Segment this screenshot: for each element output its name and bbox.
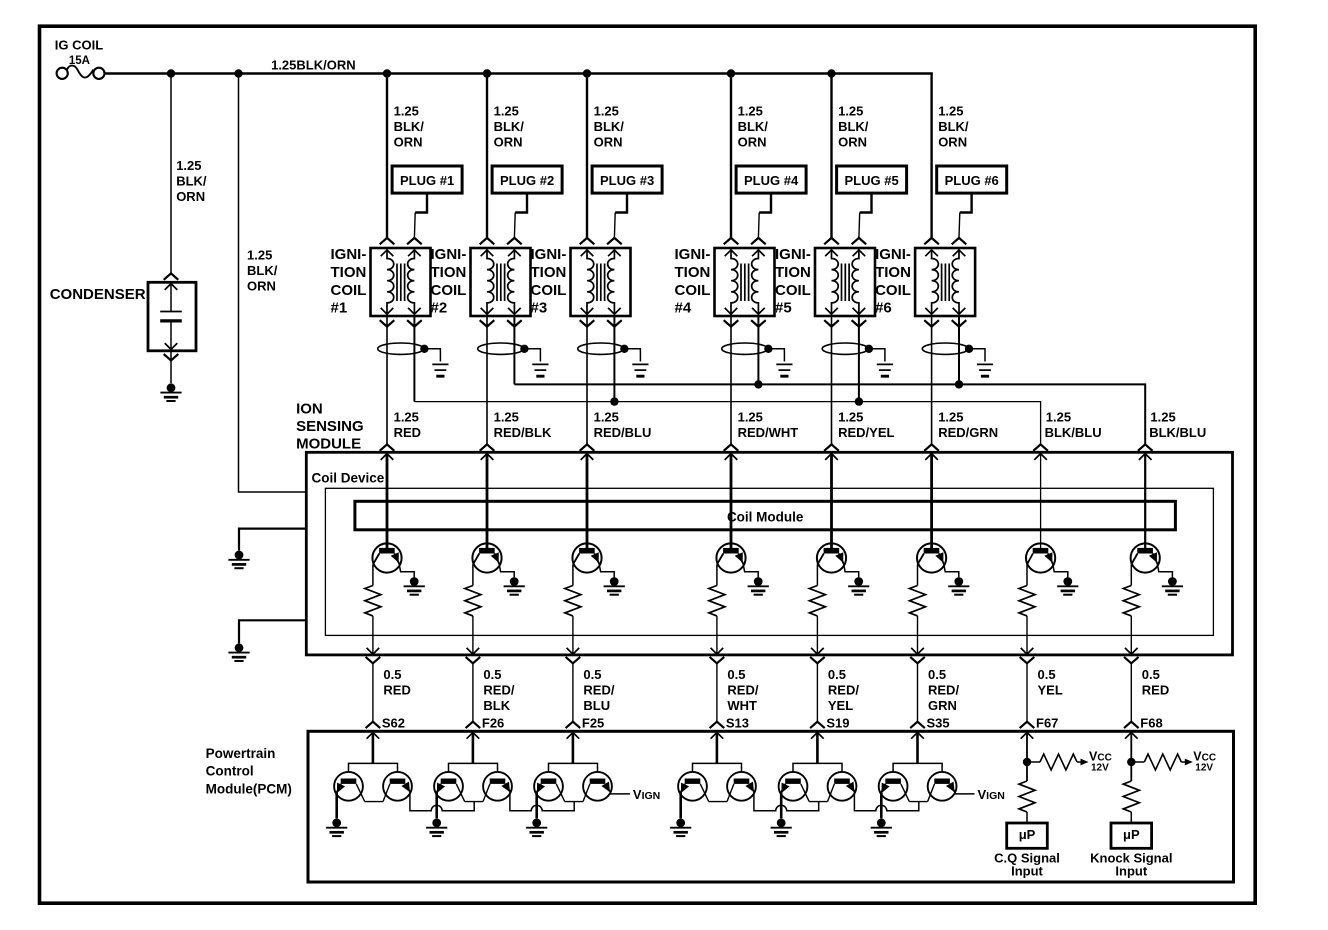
wire coil device ground stub 1: [239, 529, 306, 551]
svg-text:0.5: 0.5: [828, 667, 846, 682]
shield ring coil 6: [922, 343, 968, 354]
wire shield 2 to ground: [524, 349, 540, 362]
wire 1.25 BLK/ORN to coil device: [239, 74, 307, 493]
label 1.25 RED/YEL: [838, 409, 894, 440]
junction dot bus A coil6: [955, 380, 963, 388]
connector pin coil 5 primary bottom: [825, 308, 838, 314]
wire ion column 5: [830, 454, 833, 549]
connector pin coil 2 primary top: [481, 250, 494, 256]
connector pin pcm in 7: [1021, 732, 1034, 738]
wire coil 3 primary feed: [586, 74, 588, 238]
spark plug box PLUG #2: [492, 166, 562, 193]
svg-text:12V: 12V: [1091, 762, 1109, 773]
ignition coil T5 box: [815, 248, 875, 316]
svg-text:1.25: 1.25: [738, 103, 763, 118]
connector pin ion in 3: [581, 454, 594, 460]
wire bus coils 1/3/5 to BLK/BLU: [414, 402, 1040, 445]
connector pin ion in 2: [481, 454, 494, 460]
connector chevron coil 4 secondary top: [751, 238, 766, 244]
svg-text:BLK/BLU: BLK/BLU: [1149, 425, 1206, 440]
connector pin condenser top: [165, 284, 178, 290]
svg-text:VIGN: VIGN: [978, 787, 1005, 802]
ground ion Q3: [604, 577, 625, 595]
wire harness 6: [917, 663, 919, 721]
svg-text:12V: 12V: [1195, 762, 1213, 773]
svg-text:RED: RED: [394, 425, 421, 440]
microprocessor box uP 2: [1111, 823, 1152, 848]
resistor ion R5: [809, 586, 825, 616]
connector chevron coil 2 secondary top: [507, 238, 522, 244]
label Coil Device: [312, 471, 385, 486]
connector pin ion out 3: [567, 648, 580, 654]
transistor pcm Q7: [678, 772, 707, 801]
wire ion Q1 collector: [372, 565, 374, 586]
wire ion Q5 emitter: [844, 564, 859, 578]
label ION SENSING MODULE: [296, 400, 364, 452]
svg-text:BLK/: BLK/: [494, 119, 525, 134]
connector chevron pcm in 7: [1020, 722, 1035, 728]
wire pcm input 5: [816, 732, 819, 763]
svg-text:BLK/: BLK/: [738, 119, 769, 134]
wire coil 4 sense line: [730, 316, 732, 444]
svg-text:TION: TION: [531, 264, 567, 281]
ignition coil T1 box: [371, 248, 431, 316]
label PLUG #1: [400, 173, 454, 188]
label 1.25 BLK/ORN coil 5: [838, 103, 869, 149]
connector chevron ion out 7: [1020, 657, 1035, 663]
label Coil Module: [727, 509, 804, 524]
svg-text:ORN: ORN: [594, 134, 623, 149]
svg-text:1.25: 1.25: [594, 409, 619, 424]
svg-text:BLK/: BLK/: [247, 263, 278, 278]
resistor ion R1: [365, 586, 381, 616]
svg-text:S19: S19: [826, 715, 849, 730]
wire ion Q3 emitter: [599, 564, 614, 578]
connector chevron coil 1 primary top: [380, 238, 395, 244]
svg-text:PLUG #4: PLUG #4: [744, 173, 799, 188]
connector chevron coil 6 primary top: [924, 238, 939, 244]
ignition coil T6 box: [915, 248, 975, 316]
wire pcm Q9 collector: [801, 784, 809, 802]
wire plug 3 to coil: [614, 193, 627, 238]
wire pcm input 4: [716, 732, 719, 763]
connector chevron coil 6 secondary bottom: [952, 320, 967, 326]
wire plug 1 to coil: [414, 193, 427, 238]
label 1.25 BLK/ORN riser: [247, 248, 278, 294]
ground condenser: [160, 383, 181, 401]
transistor ion Q6: [917, 543, 946, 572]
connector pin ion out 8: [1125, 648, 1138, 654]
connector chevron ion out 2: [466, 657, 481, 663]
label 1.25 BLK/ORN coil 1: [394, 103, 425, 149]
svg-text:#1: #1: [331, 300, 348, 317]
svg-text:1.25: 1.25: [1150, 409, 1175, 424]
svg-text:#4: #4: [675, 300, 692, 317]
svg-text:0.5: 0.5: [1038, 667, 1056, 682]
wire shield 4 to ground: [768, 349, 784, 362]
wire ion Q6 emitter: [944, 564, 959, 578]
wire pcm Q5 collector: [556, 784, 564, 802]
junction dot bus B coil3: [610, 397, 618, 405]
svg-text:VCC: VCC: [1089, 749, 1112, 763]
svg-text:0.5: 0.5: [583, 667, 601, 682]
junction dot vcc 1: [1023, 758, 1031, 766]
label 1.25 BLK/BLU left: [1045, 409, 1102, 440]
svg-text:Powertrain: Powertrain: [206, 746, 276, 761]
wire shield 6 to ground: [969, 349, 985, 362]
label Powertrain Control Module(PCM): [206, 746, 292, 797]
svg-text:IGNI-: IGNI-: [675, 246, 711, 263]
svg-text:S62: S62: [382, 715, 405, 730]
pin label S13: [726, 715, 749, 730]
svg-text:1.25: 1.25: [176, 158, 201, 173]
connector chevron ion out 6: [910, 657, 925, 663]
svg-text:15A: 15A: [69, 55, 90, 67]
connector chevron coil 5 primary bottom: [824, 320, 839, 326]
spark plug box PLUG #3: [592, 166, 662, 193]
wire pcm pair 5 base bar: [793, 763, 842, 772]
wire coil 5 primary feed: [830, 74, 832, 238]
connector pin ion out 1: [367, 648, 380, 654]
resistor ion R3: [565, 586, 581, 616]
svg-text:μP: μP: [1019, 827, 1036, 842]
connector pin pcm in 1: [367, 732, 380, 738]
wire pcm input 2: [472, 732, 475, 763]
connector chevron ion in 5: [824, 444, 839, 450]
wire plug 5 to coil: [859, 193, 872, 238]
junction dot feed 6: [727, 69, 735, 77]
label 15A: [69, 55, 90, 67]
wire pcm pair 2 mid: [465, 801, 483, 803]
label IGNITION COIL #5: [775, 246, 811, 316]
svg-text:BLU: BLU: [583, 698, 610, 713]
connector chevron coil 3 primary bottom: [580, 320, 595, 326]
transistor ion Q4: [716, 543, 745, 572]
wire ion Q1 emitter: [399, 564, 414, 578]
connector pin coil 3 primary top: [581, 250, 594, 256]
svg-text:ORN: ORN: [938, 134, 967, 149]
wire pcm input 1: [372, 732, 375, 763]
svg-text:1.25: 1.25: [838, 409, 863, 424]
label C.Q Signal Input: [994, 850, 1060, 878]
ground ion Q7: [1057, 577, 1078, 595]
coil 3 primary winding: [587, 250, 594, 314]
svg-text:SENSING: SENSING: [296, 418, 364, 435]
transistor ion Q5: [817, 543, 846, 572]
connector chevron ion in 1: [380, 444, 395, 450]
junction dot feed 4: [483, 69, 491, 77]
svg-text:F26: F26: [482, 715, 504, 730]
wire coil 6 sense line: [931, 316, 933, 444]
connector pin coil 4 primary bottom: [725, 308, 738, 314]
svg-text:1.25: 1.25: [247, 248, 272, 263]
connector pin pcm in 4: [711, 732, 724, 738]
svg-text:PLUG #6: PLUG #6: [945, 173, 999, 188]
wire coil 2 secondary return: [513, 316, 515, 384]
svg-text:0.5: 0.5: [727, 667, 745, 682]
connector chevron coil 6 primary bottom: [924, 320, 939, 326]
svg-text:ION: ION: [296, 400, 323, 417]
svg-text:S13: S13: [726, 715, 749, 730]
svg-text:CONDENSER: CONDENSER: [50, 286, 146, 303]
svg-text:ORN: ORN: [494, 134, 523, 149]
spark plug box PLUG #4: [736, 166, 806, 193]
svg-text:IGNI-: IGNI-: [875, 246, 911, 263]
svg-text:#5: #5: [775, 300, 792, 317]
junction dot bus A coil4: [754, 380, 762, 388]
svg-text:μP: μP: [1123, 827, 1140, 842]
resistor vcc R1: [1040, 754, 1077, 770]
wire pcm pair 2 link: [510, 792, 574, 811]
svg-text:1.25: 1.25: [394, 103, 419, 118]
svg-text:IGNI-: IGNI-: [331, 246, 367, 263]
svg-text:ORN: ORN: [394, 134, 423, 149]
wire ion column 8: [1144, 454, 1146, 549]
ground pcm pair 3: [526, 819, 547, 837]
ground pcm pair 5: [771, 819, 792, 837]
shield ring coil 3: [578, 343, 624, 354]
svg-text:0.5: 0.5: [483, 667, 501, 682]
ground shield 6: [977, 364, 993, 376]
connector pin coil 2 primary bottom: [481, 308, 494, 314]
wire coil 6 secondary return: [958, 316, 960, 384]
connector pin coil 4 primary top: [725, 250, 738, 256]
connector pin coil 4 secondary top: [752, 250, 765, 256]
wire to vcc resistor 2: [1131, 761, 1144, 763]
label 1.25 BLK/ORN coil 4: [738, 103, 769, 149]
transistor ion Q2: [472, 543, 501, 572]
label IGNITION COIL #4: [675, 246, 711, 316]
resistor ion R4: [709, 586, 725, 616]
svg-text:ORN: ORN: [176, 189, 205, 204]
svg-text:ORN: ORN: [738, 134, 767, 149]
capacitor plates: [160, 312, 182, 321]
wire resistor to uP 1: [1026, 812, 1028, 823]
label 1.25 RED: [394, 409, 421, 440]
connector pin ion out 6: [911, 648, 924, 654]
connector chevron coil 1 secondary top: [407, 238, 422, 244]
wire shield 3 to ground: [624, 349, 640, 362]
connector chevron coil 5 secondary bottom: [852, 320, 867, 326]
wire condenser internal top: [170, 284, 172, 312]
connector chevron ion out 4: [710, 657, 725, 663]
svg-text:YEL: YEL: [828, 698, 853, 713]
wire coil 4 secondary return: [757, 316, 759, 384]
wire pcm pair 6 mid: [909, 801, 927, 803]
transistor pcm Q4: [483, 772, 512, 802]
connector pin coil 2 secondary top: [508, 250, 521, 256]
coil 5 primary winding: [832, 250, 839, 314]
wire ion Q2 collector: [472, 565, 474, 586]
junction dot feed 1: [167, 69, 175, 77]
wire ion Q8 collector: [1130, 565, 1132, 586]
wire pcm pair 4 link: [754, 792, 819, 811]
connector pin coil 6 primary top: [925, 250, 938, 256]
svg-text:YEL: YEL: [1038, 682, 1063, 697]
wire pcm pair 4 mid: [709, 801, 727, 803]
svg-text:RED/WHT: RED/WHT: [738, 425, 799, 440]
label CONDENSER: [50, 286, 146, 303]
resistor vcc R2: [1144, 754, 1181, 770]
svg-text:TION: TION: [875, 264, 911, 281]
connector pin coil 3 primary bottom: [581, 308, 594, 314]
wire pcm Q3 emitter to ground: [435, 792, 438, 818]
svg-text:Coil Module: Coil Module: [727, 509, 804, 524]
connector pin coil 1 secondary bottom: [408, 308, 421, 314]
label VIGN: [978, 787, 1005, 802]
wire ion column 7: [1040, 454, 1042, 549]
label IGNITION COIL #1: [331, 246, 367, 316]
wire ion Q3 collector: [572, 565, 574, 586]
label 0.5 RED/BLU: [583, 667, 614, 713]
label 0.5 RED/BLK: [483, 667, 514, 713]
label PLUG #6: [945, 173, 999, 188]
svg-text:1.25: 1.25: [938, 409, 963, 424]
shield ring coil 5: [822, 343, 868, 354]
label IG COIL: [55, 37, 103, 52]
wire pcm pair 1 mid: [365, 801, 383, 803]
wire harness 2: [472, 663, 474, 721]
ground ion Q1: [404, 577, 425, 595]
wire ion out 7: [1026, 616, 1028, 654]
svg-text:Input: Input: [1011, 863, 1043, 878]
wire ion Q4 collector: [716, 565, 718, 586]
pin label F68: [1140, 715, 1162, 730]
svg-text:IG COIL: IG COIL: [55, 37, 103, 52]
svg-text:COIL: COIL: [331, 282, 367, 299]
ground shield 4: [776, 364, 792, 376]
wire ion out 6: [917, 616, 919, 654]
svg-text:#3: #3: [531, 300, 548, 317]
svg-text:TION: TION: [431, 264, 467, 281]
wire coil 5 sense line: [831, 316, 833, 444]
ground coil device 2: [228, 643, 249, 661]
ground ion Q4: [748, 577, 769, 595]
svg-text:S35: S35: [927, 715, 950, 730]
pin label F26: [482, 715, 504, 730]
connector pin pcm in 3: [567, 732, 580, 738]
wire shield 5 to ground: [869, 349, 885, 362]
pin label S35: [927, 715, 950, 730]
label PLUG #5: [845, 173, 899, 188]
connector chevron pcm in 6: [910, 722, 925, 728]
resistor ion R2: [465, 586, 481, 616]
wire condenser branch: [170, 74, 172, 274]
transistor pcm Q3: [434, 772, 463, 801]
shield ring coil 2: [478, 343, 524, 354]
connector chevron ion in 4: [724, 444, 739, 450]
ignition coil T3 box: [571, 248, 631, 316]
pin label F67: [1036, 715, 1058, 730]
ignition coil T2 box: [471, 248, 531, 316]
ground shield 5: [877, 364, 893, 376]
transistor pcm Q10: [828, 772, 857, 802]
wire ion column 3: [586, 454, 589, 549]
ground shield 2: [532, 364, 548, 376]
connector chevron ion in 8: [1138, 444, 1153, 450]
wire pcm pair 6 base bar: [893, 763, 942, 772]
ground pcm pair 1: [326, 819, 347, 837]
junction dot shield 6: [965, 345, 973, 353]
wire coil 6 primary feed: [930, 74, 932, 238]
svg-text:1.25BLK/ORN: 1.25BLK/ORN: [271, 58, 356, 73]
wire pcm pair 2 base bar: [449, 763, 498, 772]
wire plug 4 to coil: [758, 193, 771, 238]
wire pcm Q7 collector: [700, 784, 708, 802]
connector chevron pcm in 5: [810, 722, 825, 728]
pin label S62: [382, 715, 405, 730]
transistor pcm Q6: [583, 772, 612, 802]
wire coil 4 primary feed: [730, 74, 732, 238]
svg-text:ORN: ORN: [838, 134, 867, 149]
svg-text:PLUG #3: PLUG #3: [600, 173, 654, 188]
wire 1.25BLK/ORN main feed: [105, 72, 933, 75]
junction dot shield 1: [420, 345, 428, 353]
wire ion Q8 emitter: [1157, 564, 1172, 578]
connector chevron ion out 5: [810, 657, 825, 663]
junction dot shield 3: [620, 345, 628, 353]
transistor ion Q1: [372, 543, 401, 572]
connector pin coil 4 secondary bottom: [752, 308, 765, 314]
svg-text:MODULE: MODULE: [296, 435, 361, 452]
svg-text:BLK/: BLK/: [838, 119, 869, 134]
label uP 2: [1123, 827, 1140, 842]
wire pcm input 3: [572, 732, 575, 763]
wire to vcc resistor 1: [1027, 761, 1040, 763]
svg-text:WHT: WHT: [727, 698, 757, 713]
wire pcm input 6: [916, 732, 919, 763]
connector pin coil 2 secondary bottom: [508, 308, 521, 314]
junction dot vcc 2: [1127, 758, 1135, 766]
coil device box: [306, 452, 1232, 655]
svg-text:0.5: 0.5: [928, 667, 946, 682]
label IGNITION COIL #6: [875, 246, 911, 316]
coil 5 core: [842, 264, 850, 302]
connector chevron condenser top: [164, 273, 179, 279]
wire coil 5 secondary return: [858, 316, 860, 402]
connector chevron coil 4 secondary bottom: [751, 320, 766, 326]
label 1.25 BLK/ORN condenser: [176, 158, 207, 204]
inner module outline: [325, 488, 1213, 635]
connector pin pcm in 6: [911, 732, 924, 738]
svg-text:F68: F68: [1140, 715, 1162, 730]
wire ion out 4: [716, 616, 718, 654]
svg-text:RED/: RED/: [583, 682, 614, 697]
wire pcm Q11 collector: [901, 784, 909, 802]
microprocessor box uP 1: [1007, 823, 1048, 848]
ground coil device 1: [228, 551, 249, 569]
resistor ion R8: [1123, 586, 1139, 616]
svg-text:IGNI-: IGNI-: [531, 246, 567, 263]
shield ring coil 1: [378, 343, 424, 354]
svg-text:COIL: COIL: [531, 282, 567, 299]
connector pin coil 3 secondary top: [608, 250, 621, 256]
shield ring coil 4: [722, 343, 768, 354]
svg-text:RED/BLU: RED/BLU: [594, 425, 652, 440]
junction dot shield 2: [520, 345, 528, 353]
junction dot feed 7: [827, 69, 835, 77]
wire plug 2 to coil: [514, 193, 527, 238]
wire ion out 2: [472, 616, 474, 654]
coil 3 secondary winding: [608, 250, 615, 314]
wire pcm input 8: [1130, 732, 1132, 781]
resistor pullup R3: [1019, 781, 1035, 812]
connector chevron pcm in 2: [466, 722, 481, 728]
label 0.5 RED: [383, 667, 410, 698]
connector chevron coil 1 primary bottom: [380, 320, 395, 326]
connector chevron coil 2 primary bottom: [480, 320, 495, 326]
pin label F25: [582, 715, 604, 730]
